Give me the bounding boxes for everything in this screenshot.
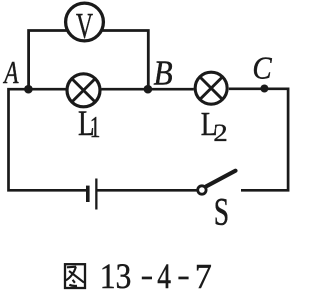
battery: short thick plate (86, 186, 90, 202)
svg-text:2: 2 (213, 118, 228, 146)
wire: voltmeter left lead down to node A (29, 31, 68, 90)
switch S: blade (206, 171, 235, 187)
caption: dash (142, 277, 152, 280)
node A (24, 85, 33, 94)
svg-text:V: V (76, 5, 93, 45)
svg-text:7: 7 (195, 257, 212, 296)
caption: character 图 (drawn) (65, 264, 85, 288)
svg-text:S: S (214, 191, 229, 234)
svg-text:B: B (154, 54, 173, 93)
lamp L1 (67, 74, 100, 107)
wire: lamp L1 to node B to lamp L2 (101, 88, 194, 91)
svg-text:C: C (252, 50, 272, 86)
wire: lamp L2 to node C (229, 87, 265, 90)
svg-text:A: A (3, 55, 19, 90)
svg-text:4: 4 (157, 255, 171, 295)
wire: voltmeter right lead down to node B (101, 31, 148, 90)
node C (260, 85, 268, 93)
wire: node A to outer left side down to battery (9, 89, 87, 190)
wire: node A to lamp L1 (29, 88, 67, 91)
switch S: pivot (198, 186, 206, 194)
node B (144, 85, 153, 94)
svg-text:13: 13 (100, 257, 132, 296)
wire: battery to switch (98, 189, 197, 192)
battery: long thin plate (95, 179, 97, 210)
voltmeter U1 (66, 3, 104, 41)
caption: dash (178, 277, 188, 280)
lamp L2 (195, 72, 227, 104)
wire: node C to right side down to switch right lead (241, 89, 288, 191)
svg-text:1: 1 (90, 110, 101, 144)
